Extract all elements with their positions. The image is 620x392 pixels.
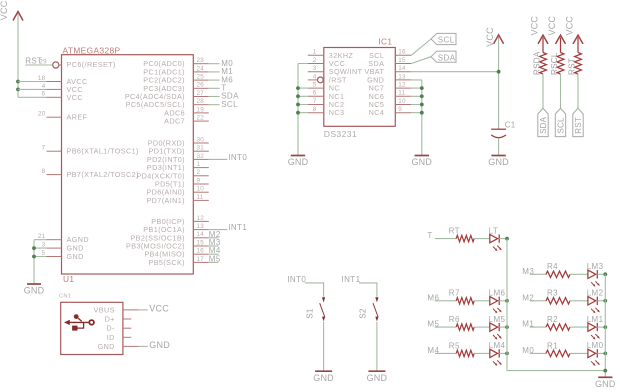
wire and node M5 xyxy=(209,254,221,263)
node M1 net label xyxy=(522,320,534,329)
resistor RSCL xyxy=(550,38,564,76)
pin 8 PB7(XTAL2/TOSC2) xyxy=(42,168,139,179)
wire LM2 cathode to column xyxy=(597,300,605,302)
pin 7 NC2 of IC1 xyxy=(308,98,345,109)
junction dot LM1 column xyxy=(603,325,607,329)
svg-text:SDA: SDA xyxy=(539,116,548,134)
svg-text:RSCL: RSCL xyxy=(550,52,559,75)
pin VBUS of CN1 xyxy=(94,305,139,314)
wire LM0 cathode to column xyxy=(597,352,605,354)
wire LM4 cathode to column xyxy=(499,352,507,354)
svg-text:2: 2 xyxy=(313,57,317,64)
svg-text:VCC: VCC xyxy=(564,16,574,36)
power symbol VCC above RST xyxy=(564,16,583,44)
pin 24 PC1(ADC1) xyxy=(143,65,209,76)
pin 23 PC0(ADC0) xyxy=(143,57,209,68)
node INT1 net label xyxy=(342,275,361,284)
wire M6 to R7 xyxy=(435,300,456,302)
ground symbol left of IC1 xyxy=(288,156,309,168)
wire R3 to LM2 xyxy=(570,300,588,302)
wire and node M3 xyxy=(209,238,221,247)
wire M1 to R2 xyxy=(530,326,546,328)
wire R2 to LM1 xyxy=(570,326,588,328)
svg-text:10: 10 xyxy=(398,98,406,105)
svg-text:3: 3 xyxy=(313,65,317,72)
pin 15 SDA of IC1 xyxy=(368,57,411,68)
wire and node M2 xyxy=(209,230,221,239)
net flag SCL xyxy=(431,33,456,44)
wire R6 to LM5 xyxy=(474,326,490,328)
svg-text:LM4: LM4 xyxy=(489,341,506,350)
pin 18 AVCC xyxy=(38,75,88,86)
node M4 net label xyxy=(427,346,439,355)
svg-text:RSDA: RSDA xyxy=(533,51,542,75)
wire M4 to R5 xyxy=(435,352,456,354)
wire IC1 right GND/NC pins to ground xyxy=(411,80,422,156)
power symbol VCC above RSCL xyxy=(547,16,566,44)
svg-text:10: 10 xyxy=(197,186,205,193)
pin 6 VCC xyxy=(42,91,83,102)
svg-text:C1: C1 xyxy=(505,121,516,130)
wire and node INT0 xyxy=(209,153,248,162)
svg-text:20: 20 xyxy=(38,111,46,118)
wire and node M4 xyxy=(209,246,221,255)
wire and node INT1 xyxy=(209,223,248,232)
svg-text:7: 7 xyxy=(42,145,46,152)
wire and node M1 xyxy=(209,67,233,76)
pin 9 NC4 of IC1 xyxy=(369,106,412,117)
svg-text:VCC: VCC xyxy=(547,16,557,36)
svg-text:30: 30 xyxy=(197,136,205,143)
pin 28 PC5(ADC5/SCL) xyxy=(126,98,209,109)
pin 14 PB2(SS/OC1B) xyxy=(130,231,208,242)
svg-text:31: 31 xyxy=(197,145,205,152)
pin 10 NC5 of IC1 xyxy=(369,98,412,109)
svg-text:16: 16 xyxy=(197,248,205,255)
LED LM4 xyxy=(489,341,506,366)
svg-text:28: 28 xyxy=(197,98,205,105)
wire LM3 cathode to column xyxy=(597,273,605,275)
wire T to RT xyxy=(435,238,456,240)
svg-text:24: 24 xyxy=(197,65,205,72)
svg-text:R6: R6 xyxy=(449,315,460,324)
svg-text:GND: GND xyxy=(149,340,170,350)
svg-text:13: 13 xyxy=(398,73,406,80)
junction dot LM3 column xyxy=(603,272,607,276)
svg-text:ADC7: ADC7 xyxy=(164,117,185,126)
pin 4 /RST of IC1 xyxy=(308,73,347,84)
pin 19 ADC6 xyxy=(164,106,209,117)
ground symbol below S2 xyxy=(367,371,388,383)
LED LM3 xyxy=(587,262,604,287)
svg-text:15: 15 xyxy=(197,239,205,246)
svg-text:GND: GND xyxy=(595,379,616,389)
svg-text:VCC: VCC xyxy=(485,27,495,47)
resistor R1 xyxy=(546,341,570,356)
IC IC1 DS3231 body xyxy=(324,37,396,127)
resistor R2 xyxy=(546,315,570,330)
junction dot LM0 column xyxy=(603,352,607,356)
wire and node M6 xyxy=(209,75,233,84)
svg-text:25: 25 xyxy=(197,74,205,81)
wire VCC node vertical xyxy=(498,37,500,129)
junction dot VBAT/VCC xyxy=(497,70,501,74)
svg-text:LM3: LM3 xyxy=(587,262,604,271)
svg-text:VBUS: VBUS xyxy=(94,305,115,314)
ground symbol right of IC1 xyxy=(411,156,432,168)
svg-text:ID: ID xyxy=(107,333,115,342)
node M0 net label xyxy=(522,346,534,355)
pin 5 NC of IC1 xyxy=(308,82,340,93)
svg-text:19: 19 xyxy=(197,106,205,113)
wire IC1 left NC pins to ground xyxy=(298,64,308,156)
wire M5 to R6 xyxy=(435,326,456,328)
resistor RT xyxy=(449,227,475,242)
svg-text:SCL: SCL xyxy=(556,117,565,134)
value label DS3231 xyxy=(324,129,357,139)
resistor R3 xyxy=(546,289,570,304)
svg-text:GND: GND xyxy=(367,373,388,383)
pin 2 PD4(XCK/T0) xyxy=(136,169,208,180)
pin 17 PB5(SCK) xyxy=(148,256,208,267)
svg-text:22: 22 xyxy=(197,115,205,122)
power symbol VCC above C1 xyxy=(485,27,504,47)
pin 13 GND of IC1 xyxy=(367,73,411,84)
op IC U1 ATMEGA328P body xyxy=(62,45,194,274)
junction dot LM2 column xyxy=(603,299,607,303)
connector CN1 USB body xyxy=(59,294,123,355)
svg-text:13: 13 xyxy=(197,223,205,230)
svg-text:LM0: LM0 xyxy=(587,341,604,350)
pin 3 SQW/INT of IC1 xyxy=(308,65,363,76)
pin 5 GND xyxy=(42,250,84,261)
svg-text:6: 6 xyxy=(313,90,317,97)
svg-text:GND: GND xyxy=(488,157,509,167)
svg-text:VCC: VCC xyxy=(149,304,169,314)
resistor R5 xyxy=(449,341,474,356)
svg-text:15: 15 xyxy=(398,57,406,64)
svg-text:DS3231: DS3231 xyxy=(324,129,357,139)
power symbol VCC above RSDA xyxy=(529,16,548,44)
svg-text:32: 32 xyxy=(197,153,205,160)
pin 8 NC3 of IC1 xyxy=(308,106,345,117)
svg-text:8: 8 xyxy=(42,168,46,175)
pin 12 PB0(ICP) xyxy=(151,215,209,226)
wire LT cathode to column xyxy=(499,238,507,240)
resistor R4 xyxy=(546,262,570,277)
net flag SCL xyxy=(555,108,565,136)
svg-text:M5: M5 xyxy=(209,254,221,263)
svg-text:5: 5 xyxy=(313,82,317,89)
svg-text:14: 14 xyxy=(197,231,205,238)
wire R4 to LM3 xyxy=(570,273,588,275)
node INT0 net label xyxy=(287,275,306,284)
svg-text:16: 16 xyxy=(398,49,406,56)
wire RT to LT xyxy=(474,238,490,240)
svg-text:AREF: AREF xyxy=(67,113,88,122)
switch S1 xyxy=(305,297,325,321)
svg-text:4: 4 xyxy=(313,73,317,80)
junction dot LM6 column xyxy=(505,299,509,303)
pin 16 PB4(MISO) xyxy=(144,248,208,259)
pin 27 PC4(ADC4/SDA) xyxy=(125,90,209,101)
svg-text:IC1: IC1 xyxy=(378,37,392,47)
wire R7 to LM6 xyxy=(474,300,490,302)
wire R1 to LM0 xyxy=(570,352,588,354)
svg-text:11: 11 xyxy=(197,194,204,201)
switch S2 xyxy=(359,297,379,321)
wire VBAT pin 14 to VCC node xyxy=(411,71,498,73)
svg-text:27: 27 xyxy=(197,90,205,97)
pin 1 PD3(INT1) xyxy=(147,161,209,172)
pin 3 GND xyxy=(42,242,84,253)
pin GND of CN1 xyxy=(98,342,139,351)
svg-text:GND: GND xyxy=(98,342,115,351)
capacitor C1 xyxy=(491,121,516,138)
wire and node T xyxy=(209,84,227,93)
LED LT xyxy=(489,226,502,251)
pin 1 32KHZ of IC1 xyxy=(308,49,354,60)
wire and node GND at CN1 xyxy=(139,340,171,350)
svg-text:NC4: NC4 xyxy=(369,108,385,117)
svg-text:U1: U1 xyxy=(63,274,74,284)
svg-text:5: 5 xyxy=(42,250,46,257)
svg-text:1: 1 xyxy=(197,161,201,168)
power symbol VCC (top-left) xyxy=(0,0,23,20)
wire SDA from pin 15 to flag xyxy=(411,57,431,64)
pin D- of CN1 xyxy=(106,324,131,333)
svg-text:1: 1 xyxy=(313,49,317,56)
svg-text:RST: RST xyxy=(574,117,583,134)
wire LM6 cathode to column xyxy=(499,300,507,302)
wire VCC vertical to U1 supply pins xyxy=(17,14,19,98)
wire and node VCC at CN1 xyxy=(139,304,170,314)
pin 6 NC1 of IC1 xyxy=(308,90,345,101)
node M3 net label xyxy=(522,267,534,276)
wire LED cathode column left xyxy=(507,239,605,371)
ground symbol below C1 xyxy=(488,156,509,168)
wire and node SCL xyxy=(209,100,238,109)
resistor R6 xyxy=(449,315,474,330)
svg-text:LM2: LM2 xyxy=(587,289,604,298)
pin 15 PB3(MOSI/OC2) xyxy=(126,239,209,250)
pin 13 PB1(OC1A) xyxy=(143,223,209,234)
svg-text:VCC: VCC xyxy=(67,93,83,102)
svg-text:GND: GND xyxy=(288,157,309,167)
wire SCL from pin 16 to flag xyxy=(411,39,431,55)
svg-text:LM6: LM6 xyxy=(489,289,506,298)
refdes U1 xyxy=(63,274,74,284)
svg-text:INT1: INT1 xyxy=(228,223,247,232)
node T net label xyxy=(427,231,432,240)
svg-text:SCL: SCL xyxy=(221,100,238,109)
wire RSCL to flag xyxy=(560,74,562,108)
svg-text:21: 21 xyxy=(38,233,46,240)
net flag RST xyxy=(573,108,583,136)
junction dots right NC net xyxy=(420,86,424,114)
net flag SDA xyxy=(431,51,456,62)
wire M3 to R4 xyxy=(530,273,546,275)
wire LM5 cathode to column xyxy=(499,326,507,328)
pin 20 AREF xyxy=(38,111,88,122)
svg-text:GND: GND xyxy=(313,373,334,383)
pin 7 PB6(XTAL1/TOSC1) xyxy=(42,145,139,156)
pin ID of CN1 xyxy=(107,333,131,342)
pin 14 VBAT of IC1 xyxy=(364,65,411,76)
junction dots left NC net xyxy=(296,86,300,114)
USB trident symbol xyxy=(64,314,95,330)
pin 9 PD5(T1) xyxy=(155,177,209,188)
wire VCC to AVCC pin 18 xyxy=(18,81,47,83)
node M2 net label xyxy=(522,293,534,302)
pin 25 PC2(ADC2) xyxy=(143,74,209,85)
svg-text:LM5: LM5 xyxy=(489,315,506,324)
svg-text:LT: LT xyxy=(489,226,499,235)
junction dot LM5 column xyxy=(505,325,509,329)
LED LM5 xyxy=(489,315,506,340)
svg-text:3: 3 xyxy=(42,242,46,249)
svg-text:PB6(XTAL1/TOSC1): PB6(XTAL1/TOSC1) xyxy=(67,147,139,156)
svg-text:17: 17 xyxy=(197,256,205,263)
svg-text:GND: GND xyxy=(67,252,84,261)
pin 22 ADC7 xyxy=(164,115,209,126)
svg-text:RT: RT xyxy=(449,227,460,236)
wire LM1 cathode to column xyxy=(597,326,605,328)
ground symbol below U1 xyxy=(24,284,45,296)
node M5 net label xyxy=(427,320,439,329)
wire M2 to R3 xyxy=(530,300,546,302)
svg-text:R1: R1 xyxy=(547,341,558,350)
wire RSDA to flag xyxy=(542,74,544,108)
resistor R7 xyxy=(449,289,474,304)
svg-text:6: 6 xyxy=(42,91,46,98)
svg-text:9: 9 xyxy=(197,177,201,184)
svg-text:R7: R7 xyxy=(449,289,460,298)
resistor RST xyxy=(568,38,582,76)
svg-text:PC6(/RESET): PC6(/RESET) xyxy=(67,60,116,69)
svg-text:VCC: VCC xyxy=(529,16,539,36)
svg-text:T: T xyxy=(427,231,432,240)
pin 32 PD2(INT0) xyxy=(147,153,209,164)
svg-text:R3: R3 xyxy=(547,289,558,298)
wire M0 to R1 xyxy=(530,352,546,354)
svg-text:12: 12 xyxy=(398,82,406,89)
wire and node SDA xyxy=(209,92,239,101)
pin 2 VCC of IC1 xyxy=(308,57,345,68)
pin 30 PD0(RXD) xyxy=(148,136,209,147)
svg-text:PD7(AIN1): PD7(AIN1) xyxy=(146,196,185,205)
junction dots on U1 ground net xyxy=(32,246,36,258)
ground symbol below S1 xyxy=(313,371,334,383)
junction dot LM4 column xyxy=(505,352,509,356)
wire AGND/GND pins to ground xyxy=(34,240,47,284)
pin 26 PC3(ADC3) xyxy=(143,82,209,93)
ground symbol LED matrix xyxy=(595,377,616,389)
svg-text:S1: S1 xyxy=(305,308,314,319)
svg-text:26: 26 xyxy=(197,82,205,89)
svg-text:18: 18 xyxy=(38,75,46,82)
resistor RSDA xyxy=(533,38,547,76)
svg-text:GND: GND xyxy=(24,286,45,296)
svg-text:GND: GND xyxy=(411,157,432,167)
LED LM0 xyxy=(587,341,604,366)
svg-text:INT0: INT0 xyxy=(228,153,247,162)
svg-text:INT0: INT0 xyxy=(287,275,306,284)
pin 31 PD1(TXD) xyxy=(148,145,208,156)
svg-text:23: 23 xyxy=(197,57,205,64)
svg-text:INT1: INT1 xyxy=(342,275,361,284)
wire VCC to VCC pin 6 xyxy=(18,96,47,98)
svg-text:8: 8 xyxy=(313,106,317,113)
pin D+ of CN1 xyxy=(105,315,132,324)
pin 11 PD7(AIN1) xyxy=(146,194,208,205)
node M6 net label xyxy=(427,293,439,302)
wire switch S2 to ground xyxy=(376,322,378,371)
wire INT0 to switch S1 xyxy=(305,283,324,297)
junction dots on VCC net xyxy=(16,80,20,92)
svg-text:12: 12 xyxy=(197,215,205,222)
pin 4 VCC xyxy=(42,83,83,94)
svg-text:CN1: CN1 xyxy=(59,294,71,300)
svg-text:2: 2 xyxy=(197,169,201,176)
net flag SDA xyxy=(538,108,548,136)
node RST net label and wire to reset pin xyxy=(25,57,52,66)
svg-text:NC3: NC3 xyxy=(329,108,345,117)
svg-text:7: 7 xyxy=(313,98,317,105)
svg-text:ATMEGA328P: ATMEGA328P xyxy=(63,45,121,55)
svg-text:PB7(XTAL2/TOSC2): PB7(XTAL2/TOSC2) xyxy=(67,170,139,179)
svg-text:R4: R4 xyxy=(547,262,558,271)
wire LED cathode column right xyxy=(604,274,606,377)
svg-text:RST: RST xyxy=(568,58,577,75)
LED LM6 xyxy=(489,289,506,314)
wire INT1 to switch S2 xyxy=(359,283,377,297)
svg-text:11: 11 xyxy=(398,90,405,97)
svg-text:4: 4 xyxy=(42,83,46,90)
LED LM1 xyxy=(587,315,604,340)
junction dot bottom of LED columns xyxy=(603,369,607,373)
junction dot LT column xyxy=(505,237,509,241)
svg-text:R2: R2 xyxy=(547,315,558,324)
svg-text:D+: D+ xyxy=(105,315,115,324)
svg-text:14: 14 xyxy=(398,65,406,72)
wire C1 to ground xyxy=(498,138,500,155)
svg-text:9: 9 xyxy=(398,106,402,113)
svg-text:PB5(SCK): PB5(SCK) xyxy=(148,258,185,267)
svg-text:LM1: LM1 xyxy=(587,315,604,324)
pin 16 SCL of IC1 xyxy=(369,49,411,60)
svg-text:D-: D- xyxy=(106,324,115,333)
wire R5 to LM4 xyxy=(474,352,490,354)
wire RST to flag xyxy=(577,74,579,108)
wire VCC to VCC pin 4 xyxy=(18,88,47,90)
svg-text:SDA: SDA xyxy=(438,53,456,62)
pin 21 AGND xyxy=(38,233,89,244)
LED LM2 xyxy=(587,289,604,314)
pin 11 NC6 of IC1 xyxy=(369,90,412,101)
svg-text:R5: R5 xyxy=(449,341,460,350)
svg-text:SCL: SCL xyxy=(438,36,455,45)
wire switch S1 to ground xyxy=(323,322,325,371)
svg-text:VCC: VCC xyxy=(0,0,9,20)
pin 12 NC7 of IC1 xyxy=(369,82,412,93)
svg-text:S2: S2 xyxy=(359,308,368,319)
wire and node M0 xyxy=(209,59,233,68)
pin 10 PD6(AIN0) xyxy=(146,186,208,197)
pin 29 PC6(/RESET) name xyxy=(67,60,116,69)
inversion bubble on PC6(/RESET) pin 29 xyxy=(53,62,62,68)
